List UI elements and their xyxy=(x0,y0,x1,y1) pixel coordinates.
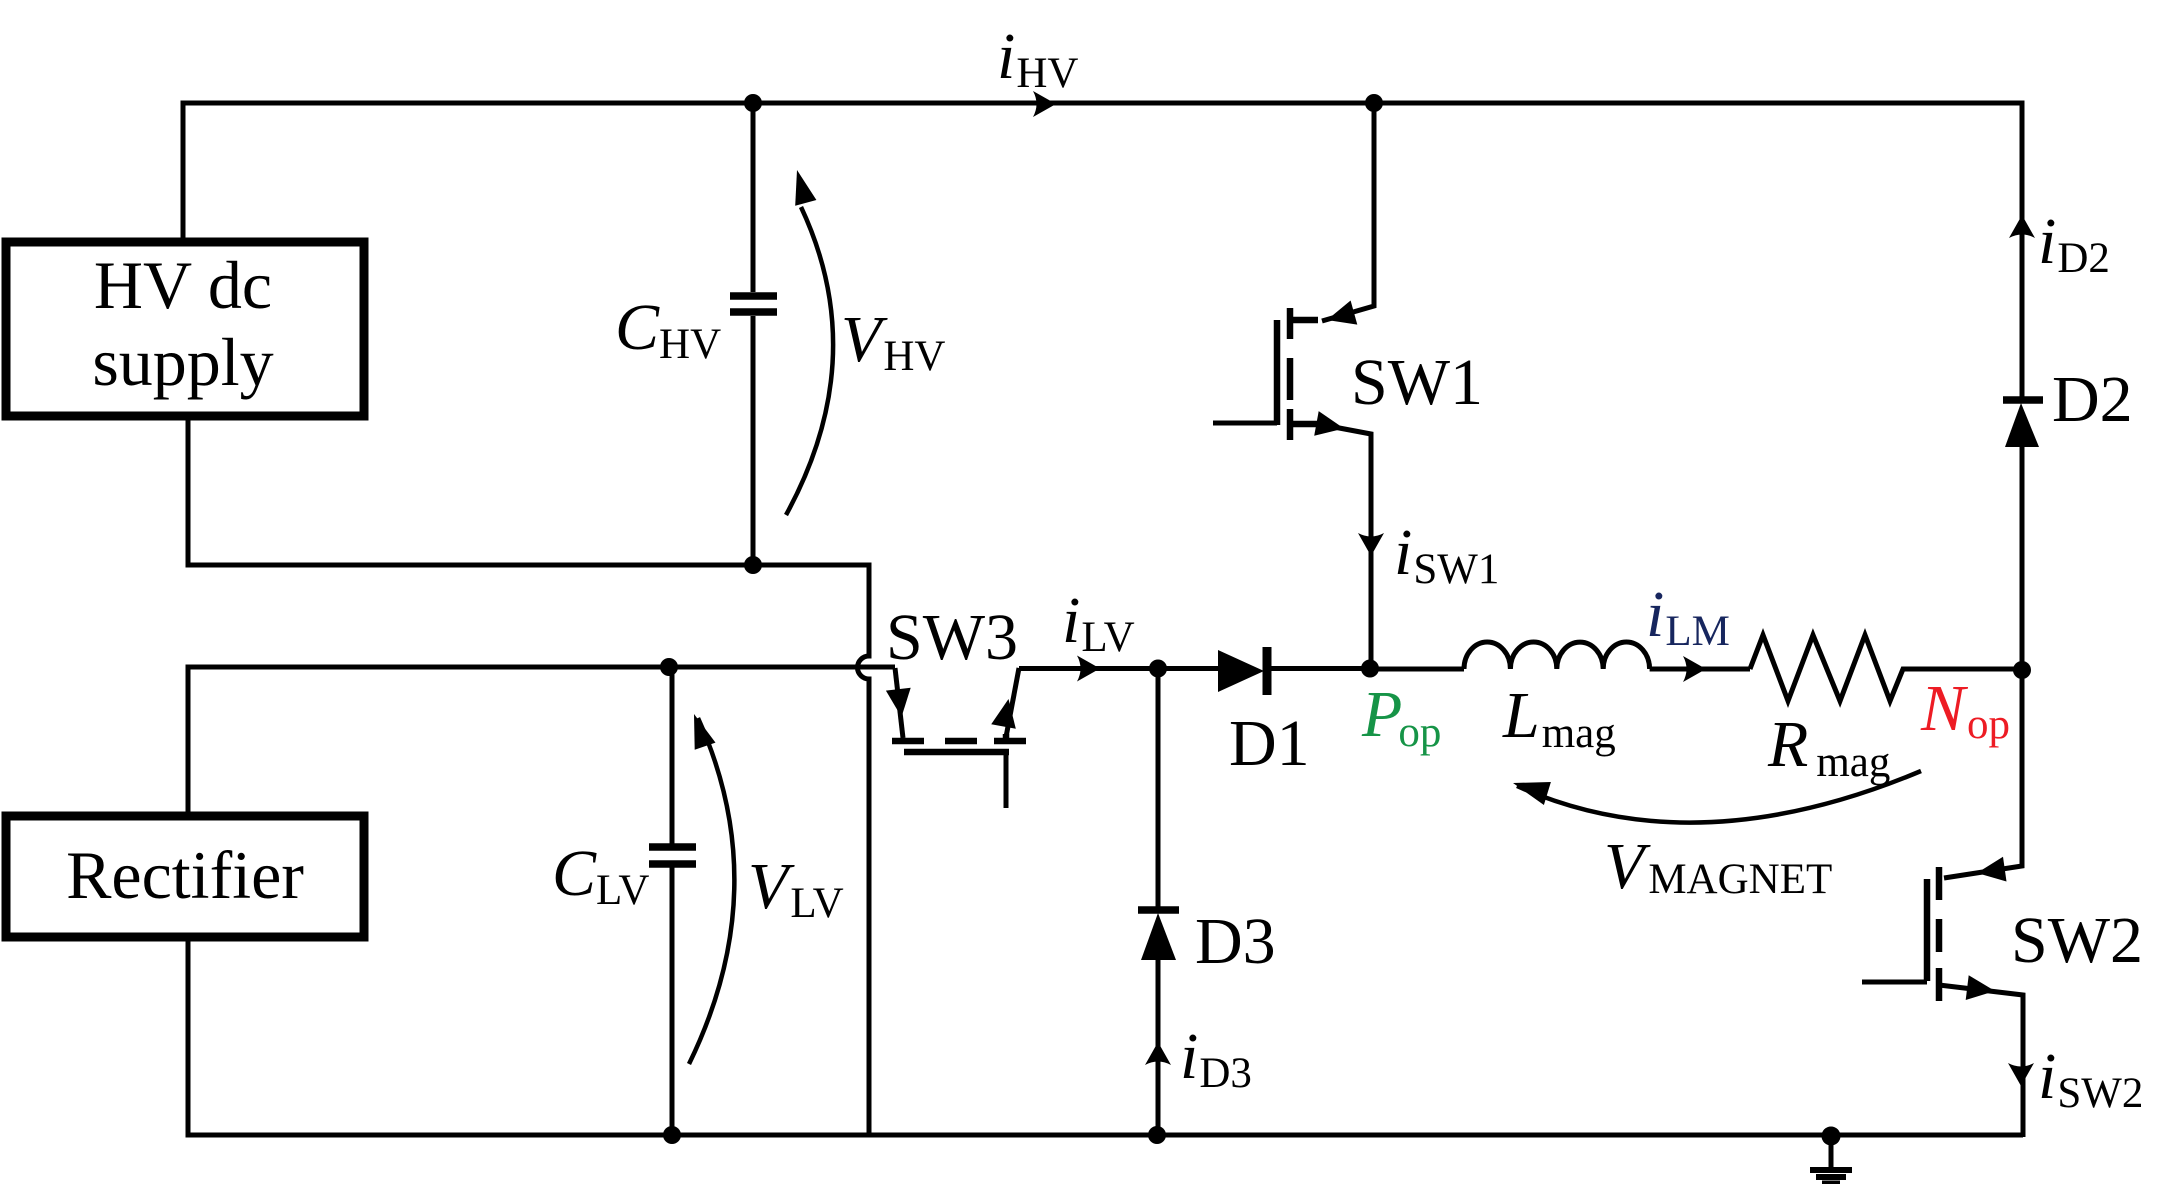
svg-text:iSW1: iSW1 xyxy=(1394,516,1499,593)
current arrow i_HV xyxy=(1033,91,1056,117)
svg-text:iLM: iLM xyxy=(1646,578,1730,655)
capacitor C_LV xyxy=(670,667,675,844)
current arrow i_SW2 xyxy=(2008,1063,2034,1086)
node N_op xyxy=(2013,661,2031,679)
block HV dc supply xyxy=(6,242,364,416)
diode D2 xyxy=(2003,396,2043,404)
node C_HV top junction xyxy=(744,94,762,112)
node ground junction xyxy=(1822,1127,1841,1146)
svg-text:CHV: CHV xyxy=(615,291,721,368)
svg-text:HV dc: HV dc xyxy=(94,247,272,323)
svg-text:VHV: VHV xyxy=(841,303,945,380)
node C_LV bottom junction xyxy=(663,1126,681,1144)
svg-text:Nop: Nop xyxy=(1920,672,2010,748)
wire SW3 source to D1 xyxy=(1019,666,1218,671)
current arrow i_LM xyxy=(1683,656,1706,682)
node SW1 drain junction xyxy=(1365,94,1383,112)
svg-text:D1: D1 xyxy=(1229,707,1310,780)
node C_HV bottom junction xyxy=(744,556,762,574)
wire LV rail with rectifier lead xyxy=(188,667,895,816)
diode D1 xyxy=(1218,650,1264,692)
svg-text:D2: D2 xyxy=(2052,363,2133,436)
svg-text:iSW2: iSW2 xyxy=(2038,1040,2143,1117)
block Rectifier xyxy=(6,816,364,937)
transistor SW1 xyxy=(1213,103,1374,668)
inductor L_mag xyxy=(1370,667,1464,672)
svg-text:SW1: SW1 xyxy=(1351,346,1483,419)
svg-text:SW2: SW2 xyxy=(2011,904,2143,977)
wire bottom ground rail with rectifier lead xyxy=(188,937,2023,1135)
svg-text:iD2: iD2 xyxy=(2038,205,2110,282)
svg-text:VMAGNET: VMAGNET xyxy=(1604,830,1832,903)
node D3 bottom junction xyxy=(1148,1126,1166,1144)
wire HV negative lead and SW3 bypass vertical with hop over LV rail xyxy=(188,416,869,1135)
capacitor C_HV xyxy=(751,103,756,292)
wire top HV rail with supply lead and D2 branch xyxy=(183,103,2022,398)
svg-text:Rectifier: Rectifier xyxy=(66,837,304,913)
svg-text:iLV: iLV xyxy=(1062,584,1135,661)
voltage arrow V_LV xyxy=(689,718,734,1064)
svg-text:D3: D3 xyxy=(1195,905,1276,978)
diode D3 xyxy=(1156,669,1161,909)
voltage arrow V_HV xyxy=(786,207,833,515)
resistor R_mag xyxy=(1750,635,2022,701)
svg-text:CLV: CLV xyxy=(552,837,649,914)
svg-text:VLV: VLV xyxy=(748,850,844,927)
node C_LV top junction xyxy=(660,658,678,676)
current arrow i_LV xyxy=(1077,656,1100,682)
svg-text:Lmag: Lmag xyxy=(1502,679,1616,757)
transistor SW2 xyxy=(1862,670,2023,1137)
node D3 top junction xyxy=(1149,660,1167,678)
current arrow i_D2 xyxy=(2009,215,2035,238)
svg-text:Pop: Pop xyxy=(1361,678,1441,756)
node P_op xyxy=(1361,660,1379,678)
svg-text:supply: supply xyxy=(92,324,273,400)
ground symbol xyxy=(1829,1136,1834,1170)
svg-text:Rmag: Rmag xyxy=(1767,708,1890,786)
current arrow i_D3 xyxy=(1145,1042,1171,1065)
svg-text:iD3: iD3 xyxy=(1180,1020,1252,1097)
svg-text:SW3: SW3 xyxy=(886,601,1018,674)
voltage arrow V_MAGNET xyxy=(1517,771,1921,823)
current arrow i_SW1 xyxy=(1358,533,1384,556)
transistor SW3 xyxy=(886,668,1026,808)
wire D2 anode to N_op node xyxy=(2020,446,2025,670)
svg-text:iHV: iHV xyxy=(997,20,1078,97)
